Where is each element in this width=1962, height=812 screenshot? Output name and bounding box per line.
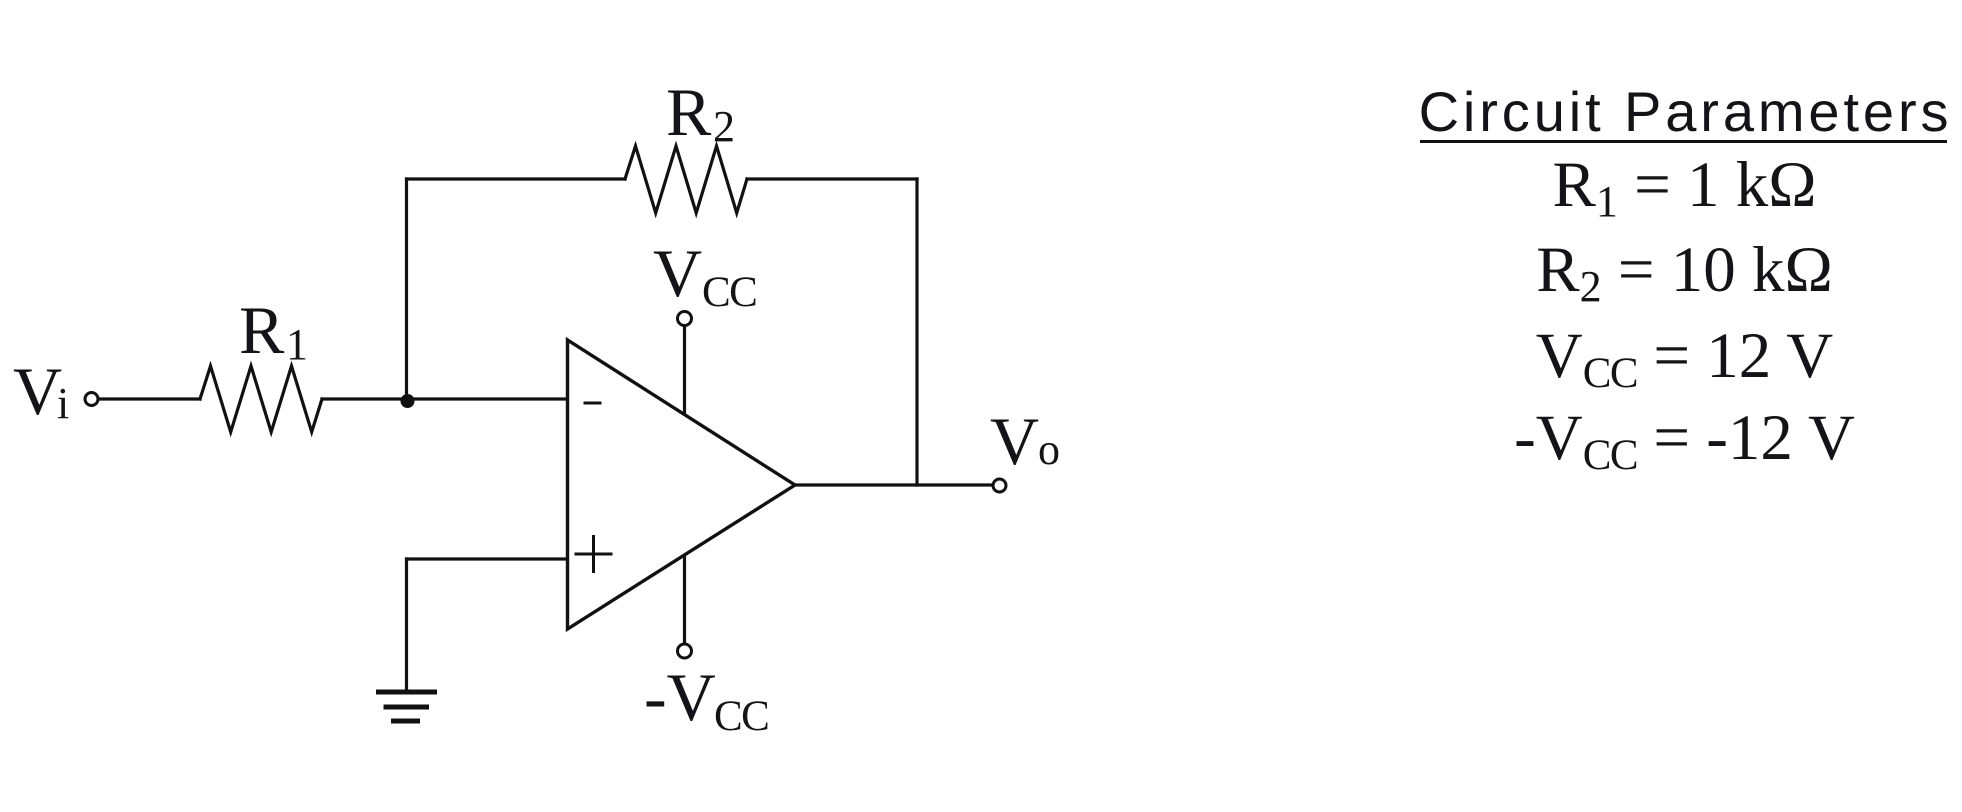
- svg-text:R: R: [666, 74, 712, 150]
- label R2: [666, 74, 735, 151]
- terminal Vi: [85, 393, 98, 406]
- wire feedback top left horizontal: [407, 177, 626, 180]
- svg-text:V: V: [653, 235, 702, 311]
- svg-text:V: V: [13, 353, 62, 429]
- svg-text:R2 = 10 kΩ: R2 = 10 kΩ: [1536, 234, 1833, 311]
- op-amp inverting pin minus: [585, 402, 600, 405]
- terminal VCC: [678, 312, 692, 326]
- svg-text:Circuit Parameters: Circuit Parameters: [1419, 80, 1953, 143]
- wire non-inverting input horizontal: [407, 557, 568, 560]
- ground: [376, 692, 437, 721]
- node A junction: [401, 394, 415, 408]
- wire feedback top right horizontal: [747, 177, 917, 180]
- wire R1 to inverting input: [322, 397, 566, 400]
- wire input: [99, 397, 201, 400]
- label R1: [239, 292, 308, 369]
- wire feedback left vertical: [405, 179, 408, 399]
- svg-text:-V: -V: [644, 659, 716, 735]
- wire ground vertical: [405, 559, 408, 690]
- svg-text:V: V: [990, 403, 1039, 479]
- wire output: [795, 483, 992, 486]
- terminal -VCC: [678, 644, 692, 658]
- svg-text:CC: CC: [714, 693, 768, 740]
- label VCC: [653, 235, 756, 316]
- label -VCC: [644, 659, 768, 740]
- resistor R2: [625, 146, 747, 213]
- svg-text:1: 1: [286, 320, 308, 369]
- svg-text:-VCC = -12 V: -VCC = -12 V: [1514, 402, 1855, 479]
- svg-text:i: i: [57, 379, 69, 428]
- title underline: [1420, 140, 1947, 143]
- svg-text:o: o: [1038, 425, 1060, 474]
- terminal Vo: [993, 479, 1006, 492]
- label Vi: [13, 353, 69, 429]
- svg-text:2: 2: [713, 102, 735, 151]
- svg-text:VCC = 12 V: VCC = 12 V: [1536, 320, 1834, 397]
- label Vo: [990, 403, 1060, 479]
- wire feedback right vertical: [915, 179, 918, 485]
- wire VCC supply: [683, 326, 686, 414]
- resistor R1: [200, 366, 322, 432]
- svg-text:R: R: [239, 292, 285, 368]
- op-amp non-inverting pin plus: [576, 537, 611, 572]
- wire -VCC supply: [683, 556, 686, 644]
- svg-text:R1 = 1 kΩ: R1 = 1 kΩ: [1552, 149, 1816, 226]
- svg-text:CC: CC: [702, 269, 756, 316]
- op-amp U1: [568, 340, 796, 629]
